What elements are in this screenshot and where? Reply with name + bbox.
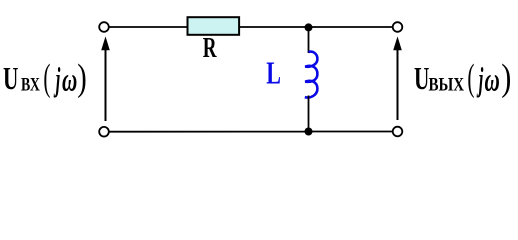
wire top-right (node A to terminal): [309, 26, 393, 28]
svg-text:ВЫХ: ВЫХ: [429, 74, 465, 95]
svg-text:(: (: [467, 57, 474, 99]
svg-text:j: j: [476, 60, 483, 98]
label L: [266, 56, 281, 91]
wire top-left (terminal to resistor): [109, 26, 188, 28]
wire bottom-right (node B to terminal): [309, 131, 393, 133]
label Uvyx(jw): [414, 57, 511, 99]
terminal top-left: [99, 22, 109, 32]
wire bottom-left (terminal to node B): [109, 131, 309, 133]
wire top-middle (resistor to node A): [240, 26, 309, 28]
svg-text:): ): [77, 57, 86, 99]
svg-text:ВХ: ВХ: [21, 73, 40, 95]
svg-text:U: U: [414, 61, 429, 96]
svg-text:ω: ω: [485, 62, 500, 99]
arrow Uvx (input voltage): [101, 36, 110, 121]
svg-text:R: R: [203, 33, 217, 65]
node B junction dot bottom: [305, 128, 313, 136]
svg-text:j: j: [53, 60, 60, 98]
svg-text:U: U: [3, 61, 18, 96]
label Uvx(jw): [3, 57, 87, 99]
wire inductor bottom lead: [308, 96, 310, 132]
resistor R: [188, 17, 240, 35]
svg-text:(: (: [43, 57, 50, 99]
node A junction dot top: [305, 23, 313, 31]
terminal bottom-right: [393, 127, 403, 137]
arrow Uvyx (output voltage): [393, 36, 402, 120]
terminal bottom-left: [99, 127, 109, 137]
svg-text:): ): [501, 57, 511, 99]
wire inductor top lead: [308, 27, 310, 53]
inductor L coil: [305, 52, 318, 98]
svg-text:L: L: [266, 56, 281, 91]
terminal top-right: [393, 22, 403, 32]
svg-text:ω: ω: [62, 62, 77, 99]
label R: [203, 33, 217, 65]
